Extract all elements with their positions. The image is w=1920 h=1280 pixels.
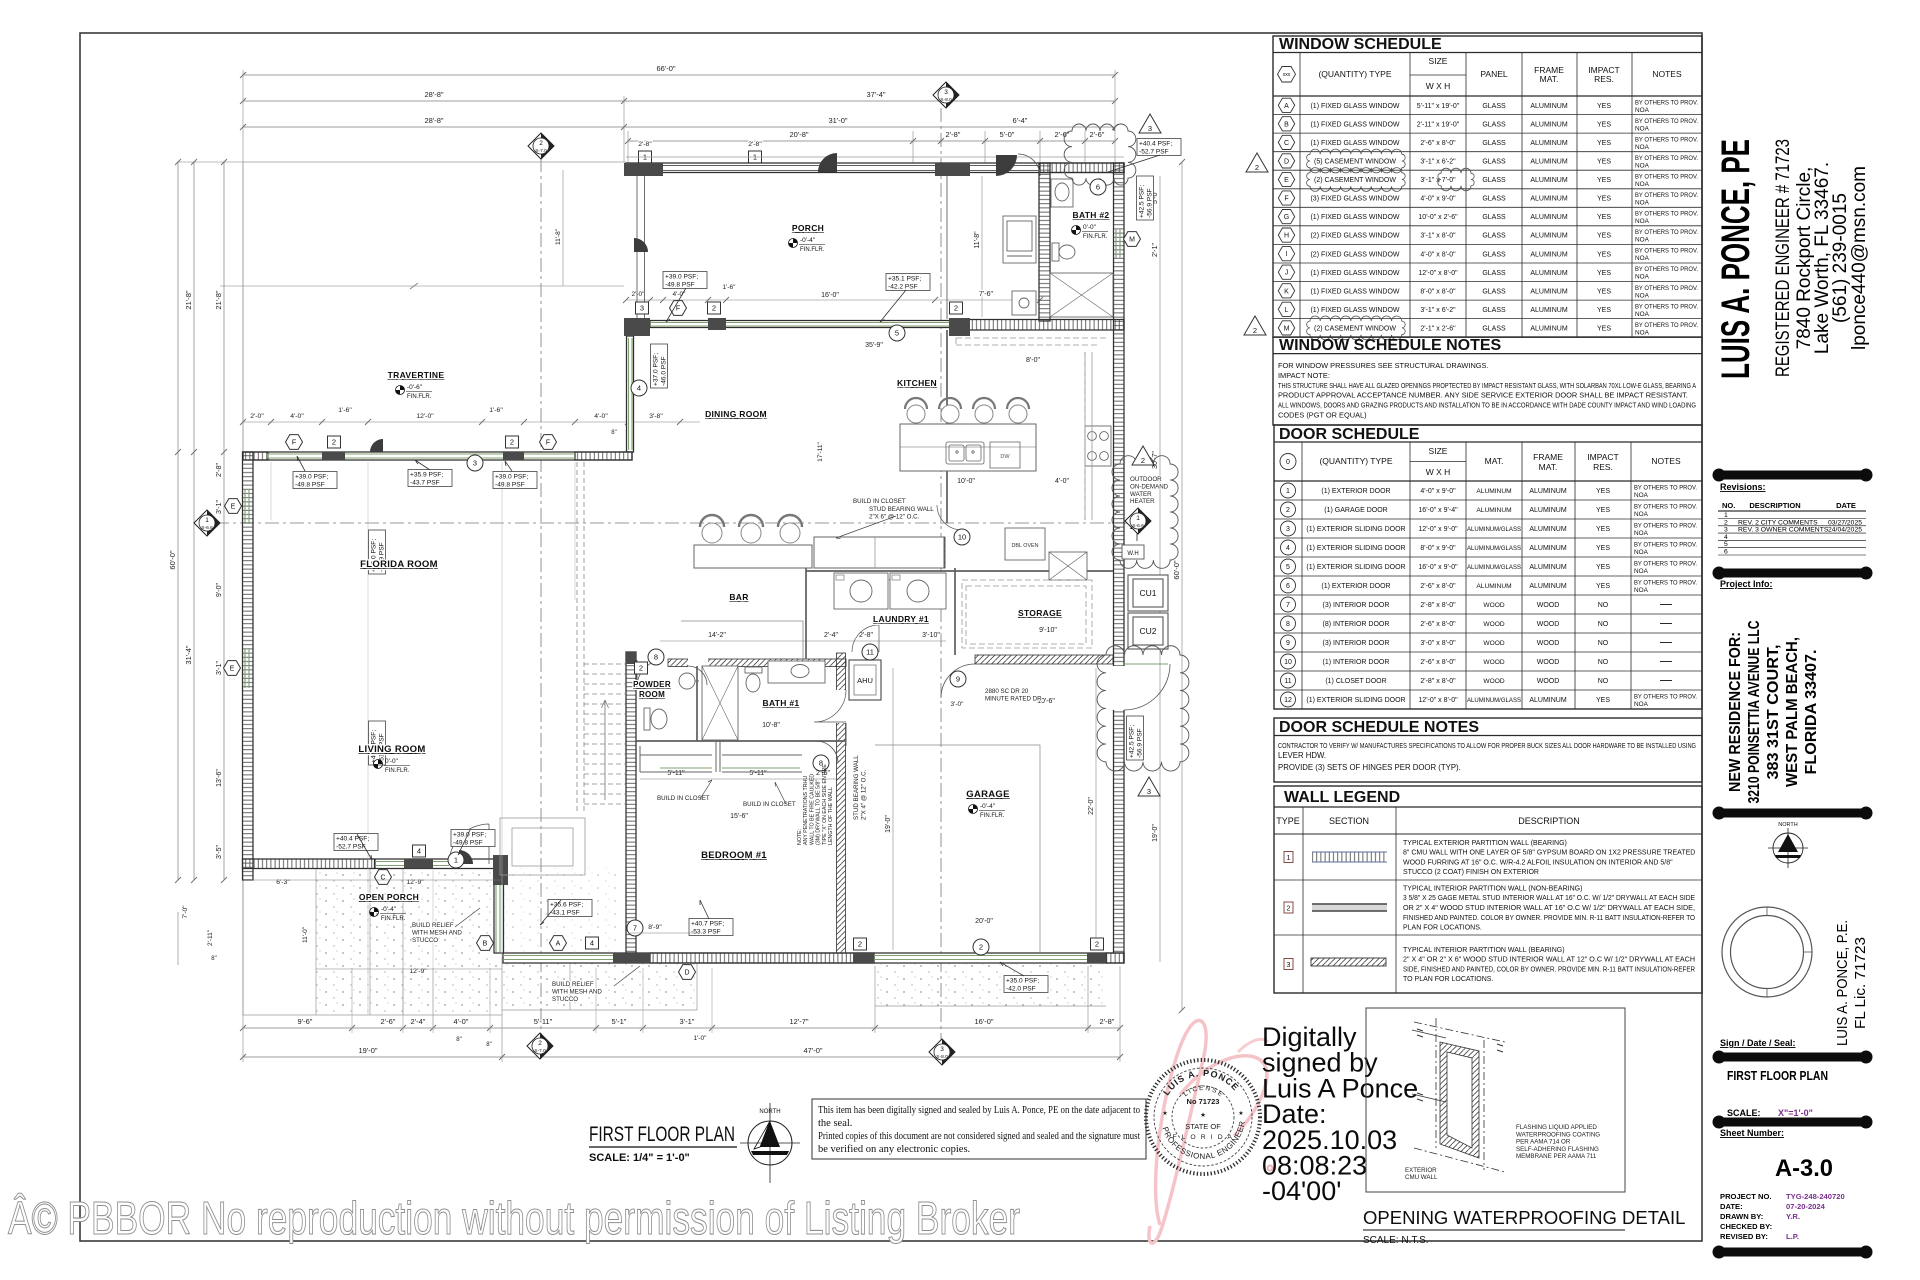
dimension lines top: [243, 74, 1115, 76]
svg-text:TYPICAL INTERIOR PARTITION WAL: TYPICAL INTERIOR PARTITION WALL (BEARING…: [1403, 947, 1565, 954]
svg-text:3: 3: [1147, 787, 1151, 796]
svg-text:ALUMINUM: ALUMINUM: [1529, 697, 1567, 704]
svg-text:9'-10": 9'-10": [1039, 627, 1057, 634]
svg-text:A: A: [556, 941, 561, 948]
svg-text:4'-0": 4'-0": [290, 413, 304, 420]
svg-text:21'-8": 21'-8": [184, 290, 193, 309]
svg-text:L.P.: L.P.: [1786, 1232, 1799, 1241]
svg-text:Revisions:: Revisions:: [1720, 482, 1766, 492]
exterior walls: [243, 163, 1125, 963]
window glazing green lines: [245, 229, 1168, 960]
svg-text:YES: YES: [1597, 326, 1611, 333]
svg-text:2'-8": 2'-8": [638, 141, 652, 148]
svg-text:YES: YES: [1597, 307, 1611, 314]
svg-text:xxx: xxx: [1283, 72, 1291, 78]
svg-text:-49.8 PSF: -49.8 PSF: [665, 281, 695, 288]
svg-text:BY OTHERS TO PROV.: BY OTHERS TO PROV.: [1635, 99, 1698, 106]
svg-text:16'-0" x 9'-4": 16'-0" x 9'-4": [1418, 507, 1458, 514]
opening waterproofing detail: [1366, 1008, 1625, 1192]
svg-text:6'-4": 6'-4": [1013, 116, 1028, 125]
svg-text:3'-1": 3'-1": [680, 1017, 695, 1026]
svg-text:3'-1": 3'-1": [216, 661, 223, 675]
svg-text:DRAWN BY:: DRAWN BY:: [1720, 1212, 1763, 1221]
wall ovens + fridge: [1005, 528, 1087, 580]
svg-text:-43.7 PSF: -43.7 PSF: [410, 479, 440, 486]
svg-text:CMU WALL: CMU WALL: [1405, 1174, 1438, 1181]
professional engineer seal: [1146, 1060, 1260, 1174]
svg-text:9: 9: [1286, 640, 1290, 647]
svg-text:(1) GARAGE DOOR: (1) GARAGE DOOR: [1324, 507, 1387, 514]
svg-text:(3) FIXED GLASS WINDOW: (3) FIXED GLASS WINDOW: [1310, 196, 1399, 203]
porch west door wedge: [634, 238, 648, 252]
svg-text:3 5/8" X 25 GAGE METAL STUD IN: 3 5/8" X 25 GAGE METAL STUD INTERIOR WAL…: [1403, 895, 1695, 902]
svg-text:ALUMINUM: ALUMINUM: [1530, 196, 1568, 203]
svg-text:J: J: [1285, 270, 1289, 277]
svg-text:FIN.FLR.: FIN.FLR.: [980, 813, 1005, 819]
north arrow title block: [1768, 822, 1808, 868]
svg-text:2: 2: [1287, 906, 1291, 913]
svg-text:TYPE: TYPE: [1276, 816, 1300, 826]
svg-text:WOOD FURRING AT 16" O.C. W/R-4: WOOD FURRING AT 16" O.C. W/R-4.2 ALFOIL …: [1403, 859, 1673, 866]
svg-text:NOA: NOA: [1635, 255, 1650, 262]
svg-text:GLASS: GLASS: [1482, 103, 1506, 110]
svg-text:NOA: NOA: [1635, 125, 1650, 132]
svg-text:BY OTHERS TO PROV.: BY OTHERS TO PROV.: [1635, 229, 1698, 236]
svg-text:BUILD RELIEF: BUILD RELIEF: [412, 922, 454, 929]
svg-text:M: M: [1284, 325, 1290, 332]
svg-text:SELF-ADHERING FLASHING: SELF-ADHERING FLASHING: [1516, 1146, 1599, 1153]
svg-text:17'-11": 17'-11": [817, 441, 824, 461]
svg-text:GLASS: GLASS: [1482, 214, 1506, 221]
svg-text:PRODUCT APPROVAL ACCEPTANCE NU: PRODUCT APPROVAL ACCEPTANCE NUMBER. ANY …: [1278, 391, 1688, 400]
dimension lines right: [1159, 176, 1161, 962]
svg-text:ALUMINUM: ALUMINUM: [1530, 233, 1568, 240]
svg-text:7: 7: [633, 924, 637, 933]
svg-text:6: 6: [1724, 549, 1728, 556]
svg-text:NOA: NOA: [1635, 274, 1650, 281]
svg-text:11: 11: [866, 648, 874, 657]
svg-text:LAUNDRY #1: LAUNDRY #1: [873, 614, 929, 624]
svg-text:L: L: [1285, 307, 1289, 314]
svg-text:ALUMINUM: ALUMINUM: [1530, 307, 1568, 314]
svg-text:D: D: [1284, 158, 1289, 165]
svg-text:YES: YES: [1597, 251, 1611, 258]
svg-text:2: 2: [510, 438, 514, 447]
svg-text:WOOD: WOOD: [1483, 640, 1504, 647]
svg-text:2'-6": 2'-6": [1090, 130, 1105, 139]
svg-text:YES: YES: [1596, 545, 1610, 552]
wall legend table: [1274, 786, 1702, 993]
svg-text:2: 2: [1286, 507, 1290, 514]
svg-text:(1) EXTERIOR DOOR: (1) EXTERIOR DOOR: [1321, 583, 1390, 590]
svg-text:BY OTHERS TO PROV.: BY OTHERS TO PROV.: [1635, 118, 1698, 125]
svg-text:S-7.0: S-7.0: [535, 148, 547, 154]
svg-text:GLASS: GLASS: [1482, 307, 1506, 314]
svg-text:2: 2: [1141, 456, 1145, 465]
svg-text:YES: YES: [1596, 507, 1610, 514]
svg-text:5: 5: [1724, 541, 1728, 548]
PSF callouts: [663, 272, 707, 289]
svg-text:DESCRIPTION: DESCRIPTION: [1518, 816, 1580, 826]
svg-text:F L O R I D A: F L O R I D A: [1173, 1134, 1234, 1141]
svg-text:2'-4": 2'-4": [411, 1017, 426, 1026]
svg-text:2'-8": 2'-8": [216, 463, 223, 477]
svg-text:YES: YES: [1597, 288, 1611, 295]
svg-text:NOA: NOA: [1635, 329, 1650, 336]
svg-text:REV. 2 CITY COMMENTS: REV. 2 CITY COMMENTS: [1738, 519, 1818, 526]
plan north compass: [740, 1103, 800, 1183]
svg-text:-49.8 PSF: -49.8 PSF: [453, 839, 483, 846]
svg-text:B: B: [1284, 121, 1289, 128]
svg-text:1: 1: [1286, 488, 1290, 495]
svg-text:60'-0": 60'-0": [1172, 560, 1181, 579]
svg-text:SECTION: SECTION: [1329, 816, 1369, 826]
svg-text:2'-4": 2'-4": [824, 632, 838, 639]
svg-text:6: 6: [1286, 583, 1290, 590]
svg-text:+40.7 PSF;: +40.7 PSF;: [691, 921, 724, 928]
svg-text:NOA: NOA: [1634, 701, 1649, 708]
svg-text:3'-1": 3'-1": [216, 500, 223, 514]
svg-text:0'-0": 0'-0": [385, 758, 399, 765]
svg-text:NEW RESIDENCE FOR:: NEW RESIDENCE FOR:: [1727, 632, 1744, 792]
porch screen lines: [637, 166, 1040, 320]
svg-text:TYPICAL EXTERIOR PARTITION WAL: TYPICAL EXTERIOR PARTITION WALL (BEARING…: [1403, 840, 1567, 847]
svg-text:BUILD IN CLOSET: BUILD IN CLOSET: [743, 801, 796, 808]
svg-text:BY OTHERS TO PROV.: BY OTHERS TO PROV.: [1634, 561, 1697, 568]
svg-text:A: A: [1284, 103, 1289, 110]
svg-text:GLASS: GLASS: [1482, 159, 1506, 166]
island sink: [946, 442, 1020, 468]
svg-text:BY OTHERS TO PROV.: BY OTHERS TO PROV.: [1635, 192, 1698, 199]
svg-text:GLASS: GLASS: [1482, 177, 1506, 184]
svg-text:1'-6": 1'-6": [723, 284, 737, 291]
svg-text:DOOR SCHEDULE: DOOR SCHEDULE: [1279, 426, 1420, 443]
svg-text:WOOD: WOOD: [1483, 659, 1504, 666]
svg-text:+35.9 PSF;: +35.9 PSF;: [410, 472, 443, 479]
svg-text:S-7.0: S-7.0: [534, 1048, 546, 1054]
svg-text:CU2: CU2: [1139, 626, 1156, 636]
svg-text:6: 6: [1096, 183, 1100, 192]
svg-text:S-6.6: S-6.6: [1132, 523, 1144, 529]
svg-text:1: 1: [1287, 855, 1291, 862]
svg-text:2'-8" x 8'-0": 2'-8" x 8'-0": [1420, 602, 1456, 609]
svg-text:9'-0": 9'-0": [216, 583, 223, 597]
svg-text:(1) EXTERIOR DOOR: (1) EXTERIOR DOOR: [1321, 488, 1390, 495]
svg-text:3'-10": 3'-10": [922, 632, 940, 639]
svg-text:(3) INTERIOR DOOR: (3) INTERIOR DOOR: [1323, 602, 1390, 609]
kitchen dashed counters: [956, 338, 1108, 648]
island stools: [907, 405, 925, 423]
svg-text:+39.0 PSF;: +39.0 PSF;: [453, 832, 486, 839]
svg-text:4'-0" x 9'-0": 4'-0" x 9'-0": [1420, 488, 1456, 495]
svg-text:CHECKED BY:: CHECKED BY:: [1720, 1222, 1772, 1231]
svg-text:BY OTHERS TO PROV.: BY OTHERS TO PROV.: [1634, 580, 1697, 587]
svg-text:-04'00': -04'00': [1262, 1176, 1341, 1206]
svg-text:1: 1: [205, 517, 209, 524]
svg-text:NO: NO: [1598, 678, 1609, 685]
psf leader arrows: [297, 155, 1160, 976]
svg-text:BY OTHERS TO PROV.: BY OTHERS TO PROV.: [1635, 322, 1698, 329]
svg-text:Project Info:: Project Info:: [1720, 579, 1773, 589]
svg-text:2: 2: [538, 1040, 542, 1047]
svg-text:2: 2: [332, 438, 336, 447]
svg-text:NOA: NOA: [1635, 311, 1650, 318]
svg-text:C: C: [380, 875, 385, 882]
svg-text:ALL WINDOWS, DOORS AND GRAZIN: ALL WINDOWS, DOORS AND GRAZING PRODUCTS …: [1278, 401, 1696, 410]
svg-text:28'-8": 28'-8": [424, 90, 443, 99]
svg-text:5: 5: [1286, 564, 1290, 571]
svg-text:-43.1 PSF: -43.1 PSF: [550, 909, 580, 916]
svg-text:WALL TO BE FIRE CAULKED: WALL TO BE FIRE CAULKED: [809, 774, 815, 845]
svg-text:WOOD: WOOD: [1537, 640, 1560, 647]
svg-text:8: 8: [1286, 621, 1290, 628]
svg-text:3'-1" x 6'-2": 3'-1" x 6'-2": [1420, 159, 1456, 166]
outdoor kitchen (porch): [1003, 216, 1036, 315]
svg-text:31'-4": 31'-4": [184, 645, 193, 664]
svg-text:11'-8": 11'-8": [974, 231, 981, 249]
svg-text:WOOD: WOOD: [1537, 678, 1560, 685]
svg-text:STUCCO (2 COAT) FINISH ON EXTE: STUCCO (2 COAT) FINISH ON EXTERIOR: [1403, 869, 1539, 876]
svg-text:BY OTHERS TO PROV.: BY OTHERS TO PROV.: [1635, 266, 1698, 273]
svg-text:8" CMU WALL WITH ONE LAYER OF: 8" CMU WALL WITH ONE LAYER OF 5/8" GYPSU…: [1403, 850, 1695, 857]
svg-text:2'-6" x 8'-0": 2'-6" x 8'-0": [1420, 659, 1456, 666]
svg-text:14'-2": 14'-2": [708, 632, 726, 639]
svg-text:3: 3: [1148, 124, 1152, 133]
svg-text:ALUMINUM: ALUMINUM: [1529, 583, 1567, 590]
svg-text:PLAN FOR LOCATIONS.: PLAN FOR LOCATIONS.: [1403, 925, 1482, 932]
svg-text:LIVING ROOM: LIVING ROOM: [358, 744, 425, 755]
svg-text:ALUMINUM/GLASS: ALUMINUM/GLASS: [1467, 697, 1522, 704]
svg-text:MAT.: MAT.: [1539, 462, 1558, 472]
svg-text:(1) INTERIOR DOOR: (1) INTERIOR DOOR: [1323, 659, 1390, 666]
svg-text:2: 2: [712, 304, 716, 313]
svg-text:ROOM: ROOM: [639, 690, 665, 699]
svg-text:★: ★: [1162, 1110, 1167, 1117]
svg-text:0'-0": 0'-0": [1083, 224, 1097, 231]
svg-text:F: F: [676, 306, 680, 313]
svg-text:ALUMINUM: ALUMINUM: [1529, 526, 1567, 533]
svg-text:(QUANTITY) TYPE: (QUANTITY) TYPE: [1319, 456, 1392, 466]
svg-text:4: 4: [1286, 545, 1290, 552]
svg-text:ALUMINUM: ALUMINUM: [1530, 288, 1568, 295]
svg-text:TIPE "X" ON EACH SIDE ENTIRE: TIPE "X" ON EACH SIDE ENTIRE: [822, 764, 828, 845]
svg-text:ALUMINUM: ALUMINUM: [1476, 488, 1511, 495]
svg-text:-42.2 PSF: -42.2 PSF: [888, 283, 918, 290]
svg-text:REV. 3 OWNER COMMENTS: REV. 3 OWNER COMMENTS: [1738, 527, 1829, 534]
svg-text:2'-6" x 8'-0": 2'-6" x 8'-0": [1420, 583, 1456, 590]
svg-text:GLASS: GLASS: [1482, 140, 1506, 147]
svg-text:FLORIDA ROOM: FLORIDA ROOM: [360, 559, 438, 570]
svg-text:11'-0": 11'-0": [302, 926, 309, 943]
revision clouds: [1064, 124, 1136, 185]
svg-text:(1) FIXED GLASS WINDOW: (1) FIXED GLASS WINDOW: [1310, 214, 1399, 221]
svg-text:10: 10: [1284, 659, 1292, 666]
svg-text:YES: YES: [1597, 233, 1611, 240]
svg-text:CU1: CU1: [1139, 588, 1156, 598]
svg-text:ALUMINUM: ALUMINUM: [1530, 214, 1568, 221]
svg-text:(1) FIXED GLASS WINDOW: (1) FIXED GLASS WINDOW: [1310, 121, 1399, 128]
svg-text:+40.4 PSF;: +40.4 PSF;: [1139, 141, 1172, 148]
svg-text:-52.7 PSF: -52.7 PSF: [336, 843, 366, 850]
svg-text:8'-0": 8'-0": [1026, 357, 1040, 364]
svg-text:4'-0": 4'-0": [454, 1017, 469, 1026]
svg-text:FINISHED AND PAINTED. COLOR BY: FINISHED AND PAINTED. COLOR BY OWNER. PR…: [1403, 915, 1696, 922]
powder room fixtures: [644, 673, 699, 730]
svg-text:BY OTHERS TO PROV.: BY OTHERS TO PROV.: [1635, 285, 1698, 292]
svg-text:OPEN PORCH: OPEN PORCH: [359, 892, 419, 902]
svg-text:NO: NO: [1598, 621, 1609, 628]
svg-text:BY OTHERS TO PROV.: BY OTHERS TO PROV.: [1634, 523, 1697, 530]
svg-text:NOTE:: NOTE:: [797, 829, 803, 845]
svg-text:2'-8": 2'-8": [946, 130, 961, 139]
svg-text:12: 12: [1284, 697, 1292, 704]
svg-text:BATH #1: BATH #1: [763, 698, 800, 708]
svg-text:3: 3: [640, 304, 644, 313]
svg-text:4: 4: [590, 939, 594, 948]
svg-text:ALUMINUM: ALUMINUM: [1529, 507, 1567, 514]
svg-text:DATE: DATE: [1836, 501, 1856, 510]
svg-text:2: 2: [979, 943, 983, 952]
svg-text:No 71723: No 71723: [1187, 1097, 1220, 1106]
svg-text:BEDROOM #1: BEDROOM #1: [701, 850, 767, 861]
svg-text:ON-DEMAND: ON-DEMAND: [1130, 483, 1169, 490]
svg-text:KITCHEN: KITCHEN: [897, 378, 937, 388]
svg-text:NOA: NOA: [1634, 530, 1649, 537]
svg-text:4'-0": 4'-0": [673, 291, 687, 298]
open porch slab stipple: [316, 870, 502, 1015]
bar counter + stools: [694, 545, 812, 568]
svg-text:(1) FIXED GLASS WINDOW: (1) FIXED GLASS WINDOW: [1310, 288, 1399, 295]
svg-text:-0'-4": -0'-4": [381, 906, 397, 913]
svg-text:2'-1": 2'-1": [1152, 243, 1159, 257]
svg-text:NOTES: NOTES: [1652, 69, 1682, 79]
svg-text:GLASS: GLASS: [1482, 251, 1506, 258]
kitchen island: [900, 424, 1036, 471]
svg-text:NOA: NOA: [1634, 549, 1649, 556]
svg-text:(1) EXTERIOR SLIDING DOOR: (1) EXTERIOR SLIDING DOOR: [1306, 545, 1405, 552]
svg-text:LEVER HDW.: LEVER HDW.: [1278, 751, 1326, 760]
AHU closet: [849, 660, 881, 700]
svg-text:SCALE: 1/4" = 1'-0": SCALE: 1/4" = 1'-0": [589, 1152, 690, 1164]
svg-text:RES.: RES.: [1594, 74, 1614, 84]
window/door markers: [286, 435, 303, 450]
svg-text:ALUMINUM/GLASS: ALUMINUM/GLASS: [1467, 545, 1522, 552]
svg-text:12'-0" x 9'-0": 12'-0" x 9'-0": [1418, 526, 1458, 533]
svg-text:BY OTHERS TO PROV.: BY OTHERS TO PROV.: [1634, 542, 1697, 549]
svg-text:1: 1: [1136, 515, 1140, 522]
svg-text:5'-0": 5'-0": [1000, 130, 1015, 139]
svg-text:2'-6": 2'-6": [1055, 130, 1070, 139]
svg-text:1'-6": 1'-6": [338, 407, 352, 414]
svg-text:PORCH: PORCH: [792, 223, 824, 233]
svg-text:5'-11" x 19'-0": 5'-11" x 19'-0": [1417, 103, 1460, 110]
svg-text:11: 11: [1284, 678, 1291, 685]
svg-text:D: D: [684, 970, 689, 977]
svg-text:+39.0 PSF;: +39.0 PSF;: [495, 474, 528, 481]
svg-text:+37.0 PSF;: +37.0 PSF;: [653, 353, 660, 386]
svg-text:(3M) DRYWALL TO BE 5/8": (3M) DRYWALL TO BE 5/8": [816, 780, 822, 845]
svg-text:WITH MESH AND: WITH MESH AND: [412, 929, 462, 936]
svg-text:NOTES: NOTES: [1651, 456, 1681, 466]
svg-text:OUTDOOR: OUTDOOR: [1130, 476, 1162, 483]
svg-text:19'-0": 19'-0": [1152, 824, 1159, 842]
long faint extension lines: [271, 462, 575, 1055]
svg-text:2: 2: [1255, 163, 1259, 172]
svg-text:C: C: [1284, 140, 1289, 147]
svg-text:BATH #2: BATH #2: [1073, 210, 1110, 220]
svg-text:YES: YES: [1596, 583, 1610, 590]
svg-text:9'-6": 9'-6": [298, 1017, 313, 1026]
seal circle: [1722, 907, 1812, 997]
svg-text:FIN.FLR.: FIN.FLR.: [1083, 234, 1108, 240]
svg-text:+42.5 PSF;: +42.5 PSF;: [1139, 185, 1146, 218]
svg-text:YES: YES: [1596, 488, 1610, 495]
svg-text:FOR WINDOW PRESSURES SEE STRUC: FOR WINDOW PRESSURES SEE STRUCTURAL DRAW…: [1278, 361, 1489, 370]
svg-text:10'-0": 10'-0": [957, 478, 975, 485]
svg-text:7'-0": 7'-0": [182, 905, 189, 919]
svg-text:OR 2" X 4" WOOD STUD INTERIOR: OR 2" X 4" WOOD STUD INTERIOR WALL AT 16…: [1403, 905, 1695, 912]
svg-text:(561) 239-0015: (561) 239-0015: [1830, 193, 1851, 323]
svg-text:3'-1" x 8'-0": 3'-1" x 8'-0": [1420, 233, 1456, 240]
svg-text:WATERPROOFING COATING: WATERPROOFING COATING: [1516, 1131, 1600, 1138]
svg-text:SIDE, FINISHED AND PAINTED, CO: SIDE, FINISHED AND PAINTED, COLOR BY OWN…: [1403, 966, 1695, 973]
svg-text:SCALE: N.T.S.: SCALE: N.T.S.: [1363, 1235, 1429, 1246]
CU1 CU2 condenser boxes: [1128, 575, 1168, 649]
svg-text:(1) FIXED GLASS WINDOW: (1) FIXED GLASS WINDOW: [1310, 270, 1399, 277]
svg-text:3: 3: [473, 459, 477, 468]
svg-text:3210 POINSETTIA AVENUE LLC: 3210 POINSETTIA AVENUE LLC: [1746, 621, 1763, 804]
svg-text:FIN.FLR.: FIN.FLR.: [800, 247, 825, 253]
svg-text:STUCCO: STUCCO: [552, 996, 578, 1003]
svg-text:IMPACT: IMPACT: [1587, 452, 1618, 462]
svg-text:SIZE: SIZE: [1429, 446, 1448, 456]
dimension lines left: [177, 162, 179, 880]
svg-text:(QUANTITY) TYPE: (QUANTITY) TYPE: [1318, 69, 1391, 79]
svg-text:-56.9 PSF: -56.9 PSF: [1136, 728, 1143, 758]
svg-text:GARAGE: GARAGE: [966, 789, 1010, 800]
svg-text:TYPICAL INTERIOR PARTITION WAL: TYPICAL INTERIOR PARTITION WALL (NON-BEA…: [1403, 885, 1582, 892]
svg-text:STUD BEARING WALL: STUD BEARING WALL: [869, 506, 934, 513]
svg-text:2: 2: [1095, 940, 1099, 949]
svg-text:(2) FIXED GLASS WINDOW: (2) FIXED GLASS WINDOW: [1310, 251, 1399, 258]
svg-text:2'-1" x 2'-6": 2'-1" x 2'-6": [1420, 326, 1456, 333]
svg-text:H: H: [1284, 233, 1289, 240]
svg-text:NOA: NOA: [1635, 218, 1650, 225]
svg-text:WITH MESH AND: WITH MESH AND: [552, 988, 602, 995]
svg-text:ALUMINUM/GLASS: ALUMINUM/GLASS: [1467, 526, 1522, 533]
svg-text:7: 7: [1286, 602, 1290, 609]
svg-text:HEATER: HEATER: [1130, 498, 1155, 505]
svg-text:(2) FIXED GLASS WINDOW: (2) FIXED GLASS WINDOW: [1310, 233, 1399, 240]
svg-text:WOOD: WOOD: [1537, 621, 1560, 628]
svg-text:YES: YES: [1597, 121, 1611, 128]
svg-text:BY OTHERS TO PROV.: BY OTHERS TO PROV.: [1634, 504, 1697, 511]
svg-text:TYG-248-240720: TYG-248-240720: [1786, 1192, 1845, 1201]
svg-text:LUIS A. PONCE, PE: LUIS A. PONCE, PE: [1714, 139, 1758, 379]
svg-text:SCALE:: SCALE:: [1727, 1108, 1761, 1118]
svg-text:1'-0": 1'-0": [694, 1035, 708, 1042]
travertine wall dims: [243, 421, 700, 423]
svg-text:GLASS: GLASS: [1482, 233, 1506, 240]
svg-text:28'-8": 28'-8": [424, 116, 443, 125]
svg-text:5'-11": 5'-11": [749, 770, 767, 777]
svg-text:NOA: NOA: [1635, 181, 1650, 188]
svg-text:FIN.FLR.: FIN.FLR.: [385, 768, 410, 774]
svg-text:DESCRIPTION: DESCRIPTION: [1749, 501, 1800, 510]
svg-text:G: G: [1284, 214, 1289, 221]
svg-text:4: 4: [417, 847, 421, 856]
svg-text:SIZE: SIZE: [1429, 56, 1448, 66]
